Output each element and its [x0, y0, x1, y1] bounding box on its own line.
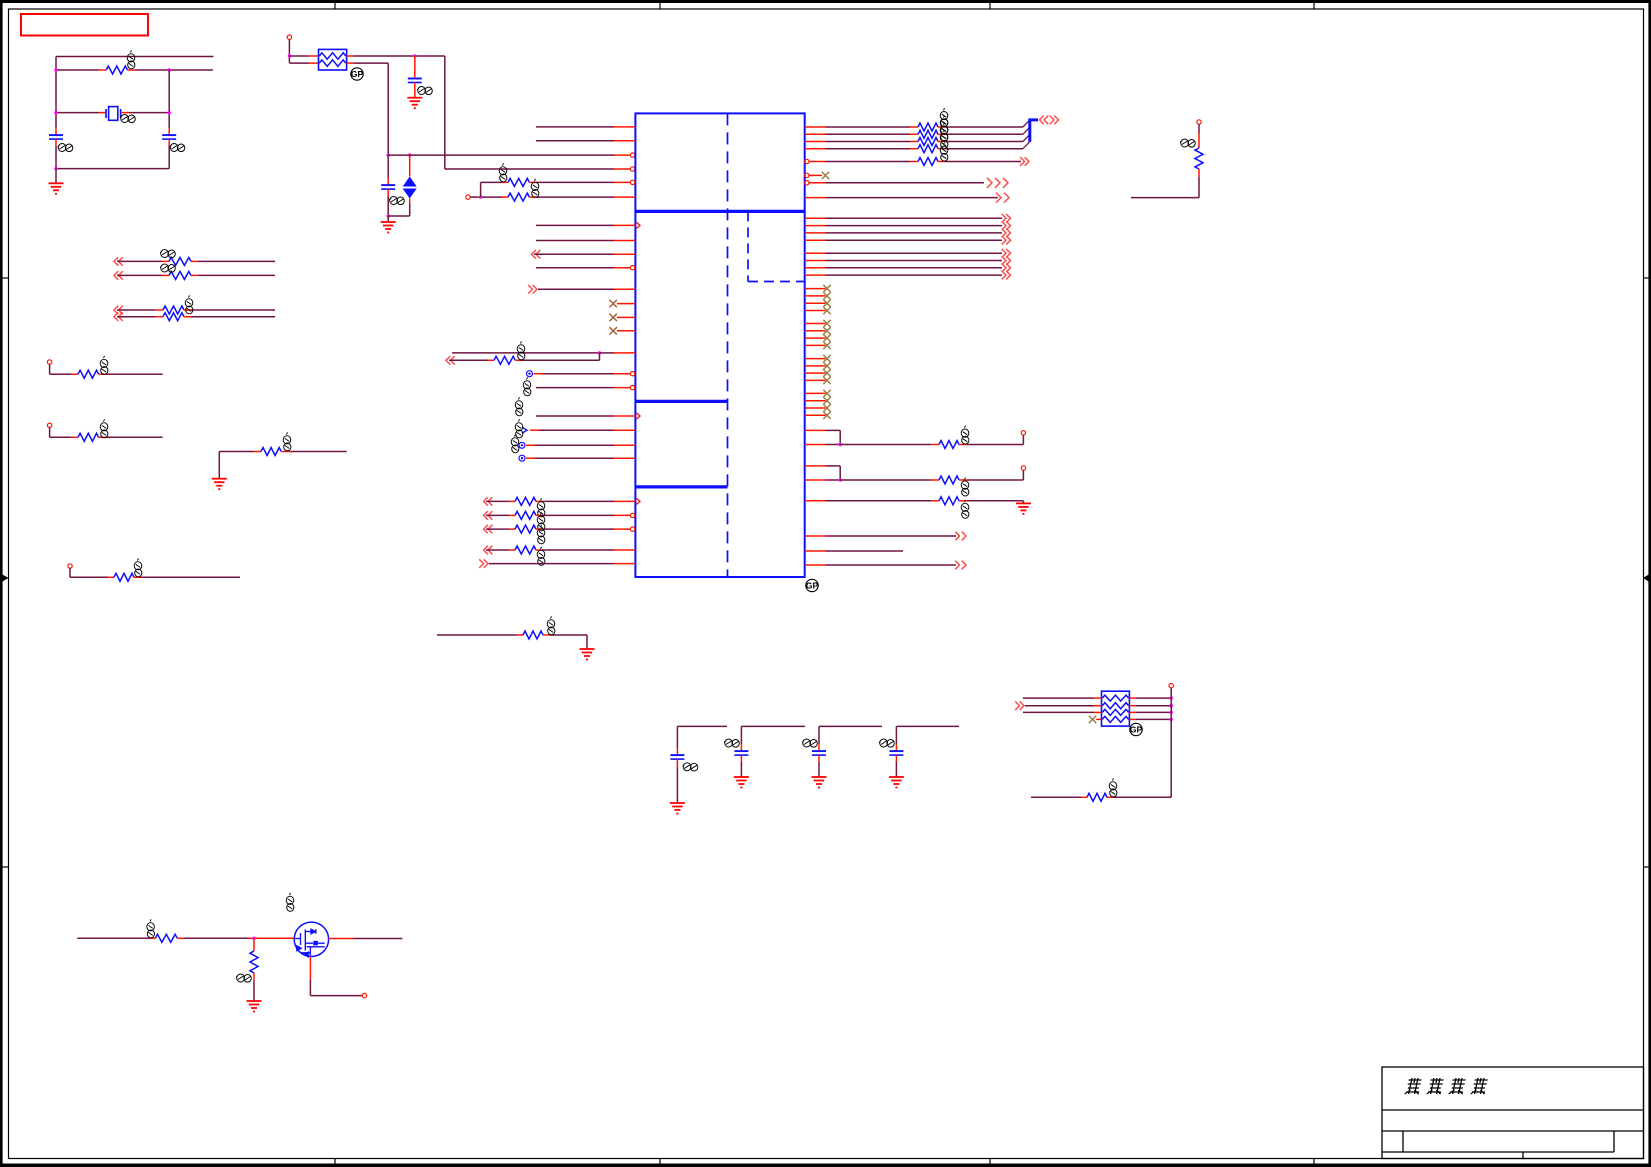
pin stub [530, 429, 539, 431]
wire [967, 444, 1023, 446]
pin stub [502, 181, 508, 183]
wire [826, 550, 904, 552]
pin stub [740, 755, 742, 762]
logo text 緯創資通 [1405, 1078, 1488, 1094]
wire [489, 563, 614, 565]
pin stub [614, 387, 631, 389]
pin stub [149, 937, 155, 939]
resistor [78, 433, 99, 441]
title block [1382, 1067, 1644, 1159]
IC section divider [635, 400, 727, 403]
wire [536, 181, 614, 183]
wire [69, 568, 71, 577]
pin stub [938, 148, 946, 150]
wire [542, 528, 614, 530]
revision box [21, 14, 148, 36]
wire [1170, 688, 1172, 798]
wire [946, 148, 1023, 150]
pin stub [99, 436, 107, 438]
pin stub [805, 141, 826, 143]
pin stub [281, 451, 290, 453]
wire [486, 500, 509, 502]
wire [826, 126, 911, 128]
label [940, 143, 948, 162]
no-connect x [823, 285, 830, 292]
pin stub [122, 112, 129, 114]
ground [407, 98, 422, 109]
off-page arrow [114, 306, 123, 315]
wire [1131, 197, 1199, 199]
wire [117, 316, 155, 318]
wire [826, 429, 841, 431]
resistor [515, 546, 536, 554]
wire [818, 726, 820, 744]
resistor [918, 138, 938, 146]
off-page arrow [1002, 236, 1011, 245]
pin stub [168, 128, 170, 135]
off-page arrow [955, 561, 966, 570]
pin stub [931, 479, 939, 481]
junction [1170, 711, 1173, 714]
pin stub [55, 128, 57, 135]
label C [724, 739, 739, 747]
wire [353, 938, 402, 940]
resistor [515, 525, 536, 533]
wire [1136, 697, 1171, 699]
wire [826, 564, 957, 566]
junction [168, 111, 171, 114]
junction [413, 54, 416, 57]
off-page arrow [484, 511, 493, 520]
pin stub [347, 55, 354, 57]
wire [470, 196, 502, 198]
pin stub [805, 429, 826, 431]
pin circle [68, 564, 72, 568]
pin stub [805, 126, 826, 128]
junction [839, 478, 842, 481]
pin stub [517, 634, 523, 636]
wire [184, 937, 248, 939]
pin stub [614, 549, 635, 551]
wire [1136, 718, 1171, 720]
open pin circle [805, 181, 809, 185]
wire [290, 451, 347, 453]
wire [387, 216, 389, 222]
no-connect x [610, 327, 617, 334]
wire [826, 465, 841, 467]
junction [1170, 718, 1173, 721]
ground [812, 777, 827, 788]
off-page arrow [987, 178, 1008, 188]
pin stub [805, 310, 826, 312]
pin stub [938, 126, 946, 128]
MOSFET Q1 [294, 922, 328, 957]
border tick [0, 277, 9, 279]
no-connect x [822, 172, 829, 179]
label [537, 547, 545, 566]
bus entry [1023, 120, 1030, 127]
label [185, 295, 193, 314]
wire [826, 535, 957, 537]
wire [50, 436, 71, 438]
pin stub [509, 528, 515, 530]
wire [826, 479, 841, 481]
IC internal dashed line [748, 281, 805, 283]
ground [247, 1001, 262, 1012]
pin stub [614, 288, 635, 290]
wire [354, 55, 445, 57]
wire [289, 55, 309, 57]
pin stub [99, 112, 106, 114]
wire [521, 359, 600, 361]
pin stub [529, 196, 536, 198]
bus entry [1023, 142, 1030, 149]
wire [218, 452, 220, 479]
pin stub [805, 465, 826, 467]
wire [840, 479, 931, 481]
wire [1031, 796, 1081, 798]
pin stub [614, 528, 631, 530]
pin stub [387, 178, 389, 185]
svg-text:GP: GP [351, 69, 364, 79]
no-connect x [823, 334, 830, 341]
wire [542, 549, 614, 551]
blue pin marker [522, 427, 527, 433]
wire [599, 353, 601, 360]
resistor [169, 257, 191, 265]
label [537, 498, 545, 517]
border tick [989, 1159, 991, 1167]
border tick [989, 0, 991, 9]
off-page arrow [484, 497, 493, 506]
wire [536, 267, 614, 269]
wire [437, 634, 517, 636]
pin stub [1096, 718, 1101, 720]
capacitor [734, 751, 748, 755]
junction [479, 195, 482, 198]
pin stub [805, 444, 826, 446]
resistor [939, 476, 959, 484]
wire [826, 225, 1003, 227]
open pin circle [630, 372, 634, 376]
pin stub [805, 330, 826, 332]
pin stub [134, 576, 141, 578]
wire [388, 215, 410, 217]
border tick [0, 866, 9, 868]
pin stub [805, 274, 826, 276]
wire [56, 112, 99, 114]
pin arrow [637, 413, 641, 419]
off-page arrow [955, 532, 966, 541]
pin stub [805, 344, 826, 346]
pin stub [809, 161, 826, 163]
resistor [515, 497, 536, 505]
GP marker RP1 [351, 68, 364, 80]
resistor R11 [250, 951, 258, 973]
wire [1023, 697, 1094, 699]
pin stub [931, 444, 939, 446]
border tick [1643, 866, 1651, 868]
bus port arrow [1050, 116, 1059, 125]
open pin circle [1021, 466, 1025, 470]
pin stub [515, 359, 521, 361]
pin stub [910, 126, 918, 128]
pin stub [614, 196, 635, 198]
wire [676, 767, 678, 803]
pin stub [254, 451, 261, 453]
junction [168, 68, 171, 71]
resistor pack RP2 [1102, 691, 1130, 726]
wire [826, 267, 1003, 269]
capacitor C2 [162, 135, 176, 139]
junction [1170, 696, 1173, 699]
pin stub [805, 295, 826, 297]
off-page arrow [528, 285, 537, 294]
capacitor [889, 751, 903, 755]
svg-text:GP: GP [806, 581, 819, 591]
wire [198, 260, 275, 262]
pin stub [614, 563, 635, 565]
wire [107, 373, 163, 375]
open pin circle [630, 527, 634, 531]
pin stub [805, 414, 826, 416]
pin stub [805, 260, 826, 262]
no-connect x [823, 362, 830, 369]
wire [895, 762, 897, 777]
pin stub [1129, 718, 1136, 720]
wire [1113, 796, 1171, 798]
IC internal dashed line [747, 211, 749, 281]
pin stub [805, 323, 826, 325]
no-connect marker [527, 371, 533, 377]
wire [826, 239, 1003, 241]
wire [826, 274, 1003, 276]
resistor pack RP1 [319, 49, 347, 70]
wire [543, 373, 614, 375]
pin stub [614, 457, 635, 459]
pin stub [309, 62, 318, 64]
pin stub [614, 126, 635, 128]
wire [600, 352, 615, 354]
wire [55, 169, 57, 184]
pin stub [938, 133, 946, 135]
pin stub [614, 267, 631, 269]
no-connect x [823, 404, 830, 411]
wire [536, 196, 614, 198]
pin stub [509, 549, 515, 551]
wire [895, 726, 897, 744]
pin stub [959, 479, 967, 481]
IC internal dashed line [727, 113, 729, 577]
pin stub [617, 316, 635, 318]
wire [444, 56, 446, 169]
pin stub [99, 373, 107, 375]
junction [1170, 704, 1173, 707]
resistor R1 [106, 66, 127, 74]
junction [252, 937, 255, 940]
pin stub [1129, 711, 1136, 713]
pin stub [1094, 705, 1102, 707]
pin stub [509, 514, 515, 516]
pin circle [47, 360, 51, 364]
wire [409, 204, 411, 216]
wire [946, 126, 1023, 128]
GP marker RP2 [1130, 723, 1143, 735]
pin circle [47, 423, 51, 427]
wire [486, 528, 509, 530]
wire [536, 387, 614, 389]
resistor R5 [1195, 148, 1203, 169]
wire [1136, 705, 1171, 707]
pin stub [676, 748, 678, 755]
no-connect x [823, 307, 830, 314]
wire [542, 500, 614, 502]
pin stub [309, 957, 311, 981]
wire [449, 359, 488, 361]
off-page arrow [1002, 229, 1011, 238]
wire [536, 140, 614, 142]
wire [191, 316, 275, 318]
pin stub [805, 148, 826, 150]
border tick [659, 1159, 661, 1167]
label [160, 264, 175, 272]
wire XTAL node [388, 154, 614, 156]
wire [70, 576, 108, 578]
label [523, 377, 531, 396]
wire [191, 309, 275, 311]
wire [536, 224, 614, 226]
bus entry [1023, 134, 1030, 141]
pin stub [895, 755, 897, 762]
pin stub [184, 316, 191, 318]
pin stub [526, 457, 535, 459]
ground [49, 183, 64, 194]
ground [734, 777, 749, 788]
right center marker [1643, 574, 1650, 582]
wire [387, 63, 389, 155]
junction [54, 111, 57, 114]
wire [50, 373, 71, 375]
wire [740, 762, 742, 777]
no-connect marker [519, 442, 525, 448]
wire [129, 112, 169, 114]
GP marker U1 [806, 579, 819, 591]
resistor [939, 497, 959, 505]
pin stub [805, 564, 826, 566]
ground [889, 777, 904, 788]
wire [826, 260, 1003, 262]
resistor R2 [508, 178, 529, 186]
pin stub [931, 500, 939, 502]
pin stub [805, 365, 826, 367]
pin stub [191, 274, 198, 276]
junction [387, 153, 390, 156]
pin stub [543, 634, 550, 636]
resistor [163, 306, 184, 314]
pin stub [959, 500, 967, 502]
pin stub [99, 69, 107, 71]
open pin circle [630, 167, 634, 171]
off-page arrow [114, 271, 123, 280]
pin stub [895, 744, 897, 751]
TVS diode D1 [403, 177, 417, 199]
wire [946, 161, 1021, 163]
pin stub [809, 182, 826, 184]
wire [586, 635, 588, 649]
wire [1198, 177, 1200, 198]
wire [826, 197, 999, 199]
label [940, 115, 948, 133]
pin stub [617, 330, 635, 332]
wire [676, 726, 678, 748]
wire [387, 155, 389, 178]
wire [1022, 435, 1024, 445]
wire [536, 240, 614, 242]
pin stub [614, 140, 635, 142]
off-page arrow [1015, 701, 1024, 710]
pin stub [740, 744, 742, 751]
wire [452, 352, 600, 354]
pin stub [1081, 796, 1087, 798]
label R4 [517, 341, 525, 360]
resistor R10 [155, 934, 177, 942]
off-page arrow [1002, 221, 1011, 230]
pin stub [536, 500, 542, 502]
pin stub [414, 56, 416, 79]
wire [309, 980, 311, 996]
wire OSC top [56, 56, 214, 58]
resistor [918, 130, 938, 138]
wire [310, 995, 362, 997]
pin stub [1129, 705, 1136, 707]
off-page arrow [1002, 256, 1011, 265]
pin stub [248, 937, 294, 939]
no-connect marker [519, 455, 525, 461]
no-connect x [1089, 716, 1096, 723]
resistor [918, 123, 938, 131]
resistor R4 [494, 356, 515, 364]
label C [683, 763, 698, 771]
pin stub [155, 309, 163, 311]
pin stub [805, 267, 826, 269]
pin stub [488, 359, 494, 361]
wire [168, 146, 170, 169]
wire [677, 725, 727, 727]
resistor R6 [261, 448, 281, 456]
resistor [169, 271, 191, 279]
border tick [1643, 277, 1651, 279]
wire [1198, 124, 1200, 133]
wire [55, 146, 57, 169]
wire [826, 133, 911, 135]
pin stub [805, 535, 826, 537]
label R7 [134, 558, 142, 577]
wire [445, 168, 614, 170]
pin stub [805, 252, 826, 254]
pin stub [71, 436, 78, 438]
pin stub [162, 260, 169, 262]
pin stub [414, 83, 416, 98]
pin stub [938, 141, 946, 143]
pin stub [127, 69, 134, 71]
open pin circle [630, 266, 634, 270]
wire [289, 62, 309, 64]
pin circle [1169, 684, 1173, 688]
pin stub [177, 937, 184, 939]
pin stub [309, 55, 318, 57]
no-connect x [823, 355, 830, 362]
label [515, 419, 523, 438]
